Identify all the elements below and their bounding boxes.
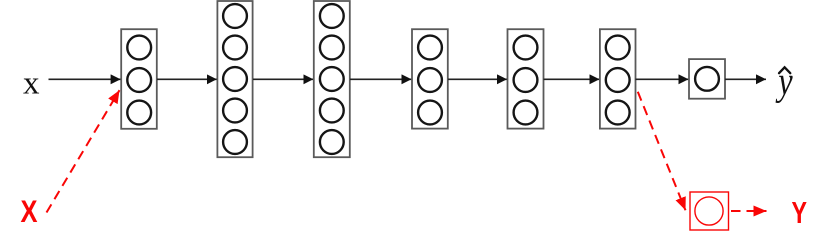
layer L4 neuron 2 [418, 68, 442, 92]
red dashed arrow red unit to Y [731, 210, 767, 212]
layer L6 neuron 2 [606, 68, 630, 92]
output label y-hat [775, 59, 794, 103]
svg-text:y: y [775, 59, 794, 103]
svg-text:X: X [21, 193, 38, 229]
layer L6 neuron 1 [606, 36, 630, 60]
red unit box [690, 192, 729, 230]
red dashed arrow X to L1 [47, 90, 120, 212]
layer L2 neuron 1 [223, 4, 247, 28]
hat of y-hat [779, 67, 790, 73]
wire L6 to output unit [636, 78, 689, 80]
wire L1 to L2 [157, 78, 217, 80]
layer L3 neuron 4 [320, 99, 344, 123]
layer L5 neuron 3 [514, 101, 538, 125]
layer L3 neuron 2 [320, 36, 344, 60]
layer L3 neuron 1 [320, 4, 344, 28]
layer L3 neuron 5 [320, 130, 344, 154]
layer L1 neuron 1 [127, 36, 151, 60]
output neuron [695, 67, 719, 91]
layer L1 neuron 3 [127, 101, 151, 125]
layer L2 neuron 2 [223, 36, 247, 60]
layer L2 neuron 4 [223, 99, 247, 123]
layer L4 box [412, 29, 448, 128]
red dashed arrow L6 to red unit [638, 92, 686, 211]
layer L5 box [508, 29, 544, 128]
layer L2 neuron 3 [223, 67, 247, 91]
layer L2 box [217, 1, 252, 157]
layer L1 neuron 2 [127, 68, 151, 92]
layer L1 box [121, 29, 157, 129]
layer L5 neuron 2 [514, 68, 538, 92]
wire L3 to L4 [350, 78, 412, 80]
wire x to layer L1 [49, 78, 121, 80]
layer L6 box [600, 29, 636, 128]
red neuron [695, 197, 723, 225]
layer L2 neuron 5 [223, 130, 247, 154]
wire L2 to L3 [253, 78, 313, 80]
wire L5 to L6 [544, 78, 600, 80]
layer L3 box [314, 1, 350, 157]
layer L3 neuron 3 [320, 67, 344, 91]
layer L6 neuron 3 [606, 101, 630, 125]
layer L4 neuron 1 [418, 36, 442, 60]
wire output to y-hat [725, 78, 766, 80]
svg-text:Y: Y [792, 196, 808, 230]
layer L4 neuron 3 [418, 101, 442, 125]
layer L5 neuron 1 [514, 36, 538, 60]
output unit box [689, 59, 725, 99]
wire L4 to L5 [448, 78, 507, 80]
svg-text:x: x [23, 66, 40, 102]
